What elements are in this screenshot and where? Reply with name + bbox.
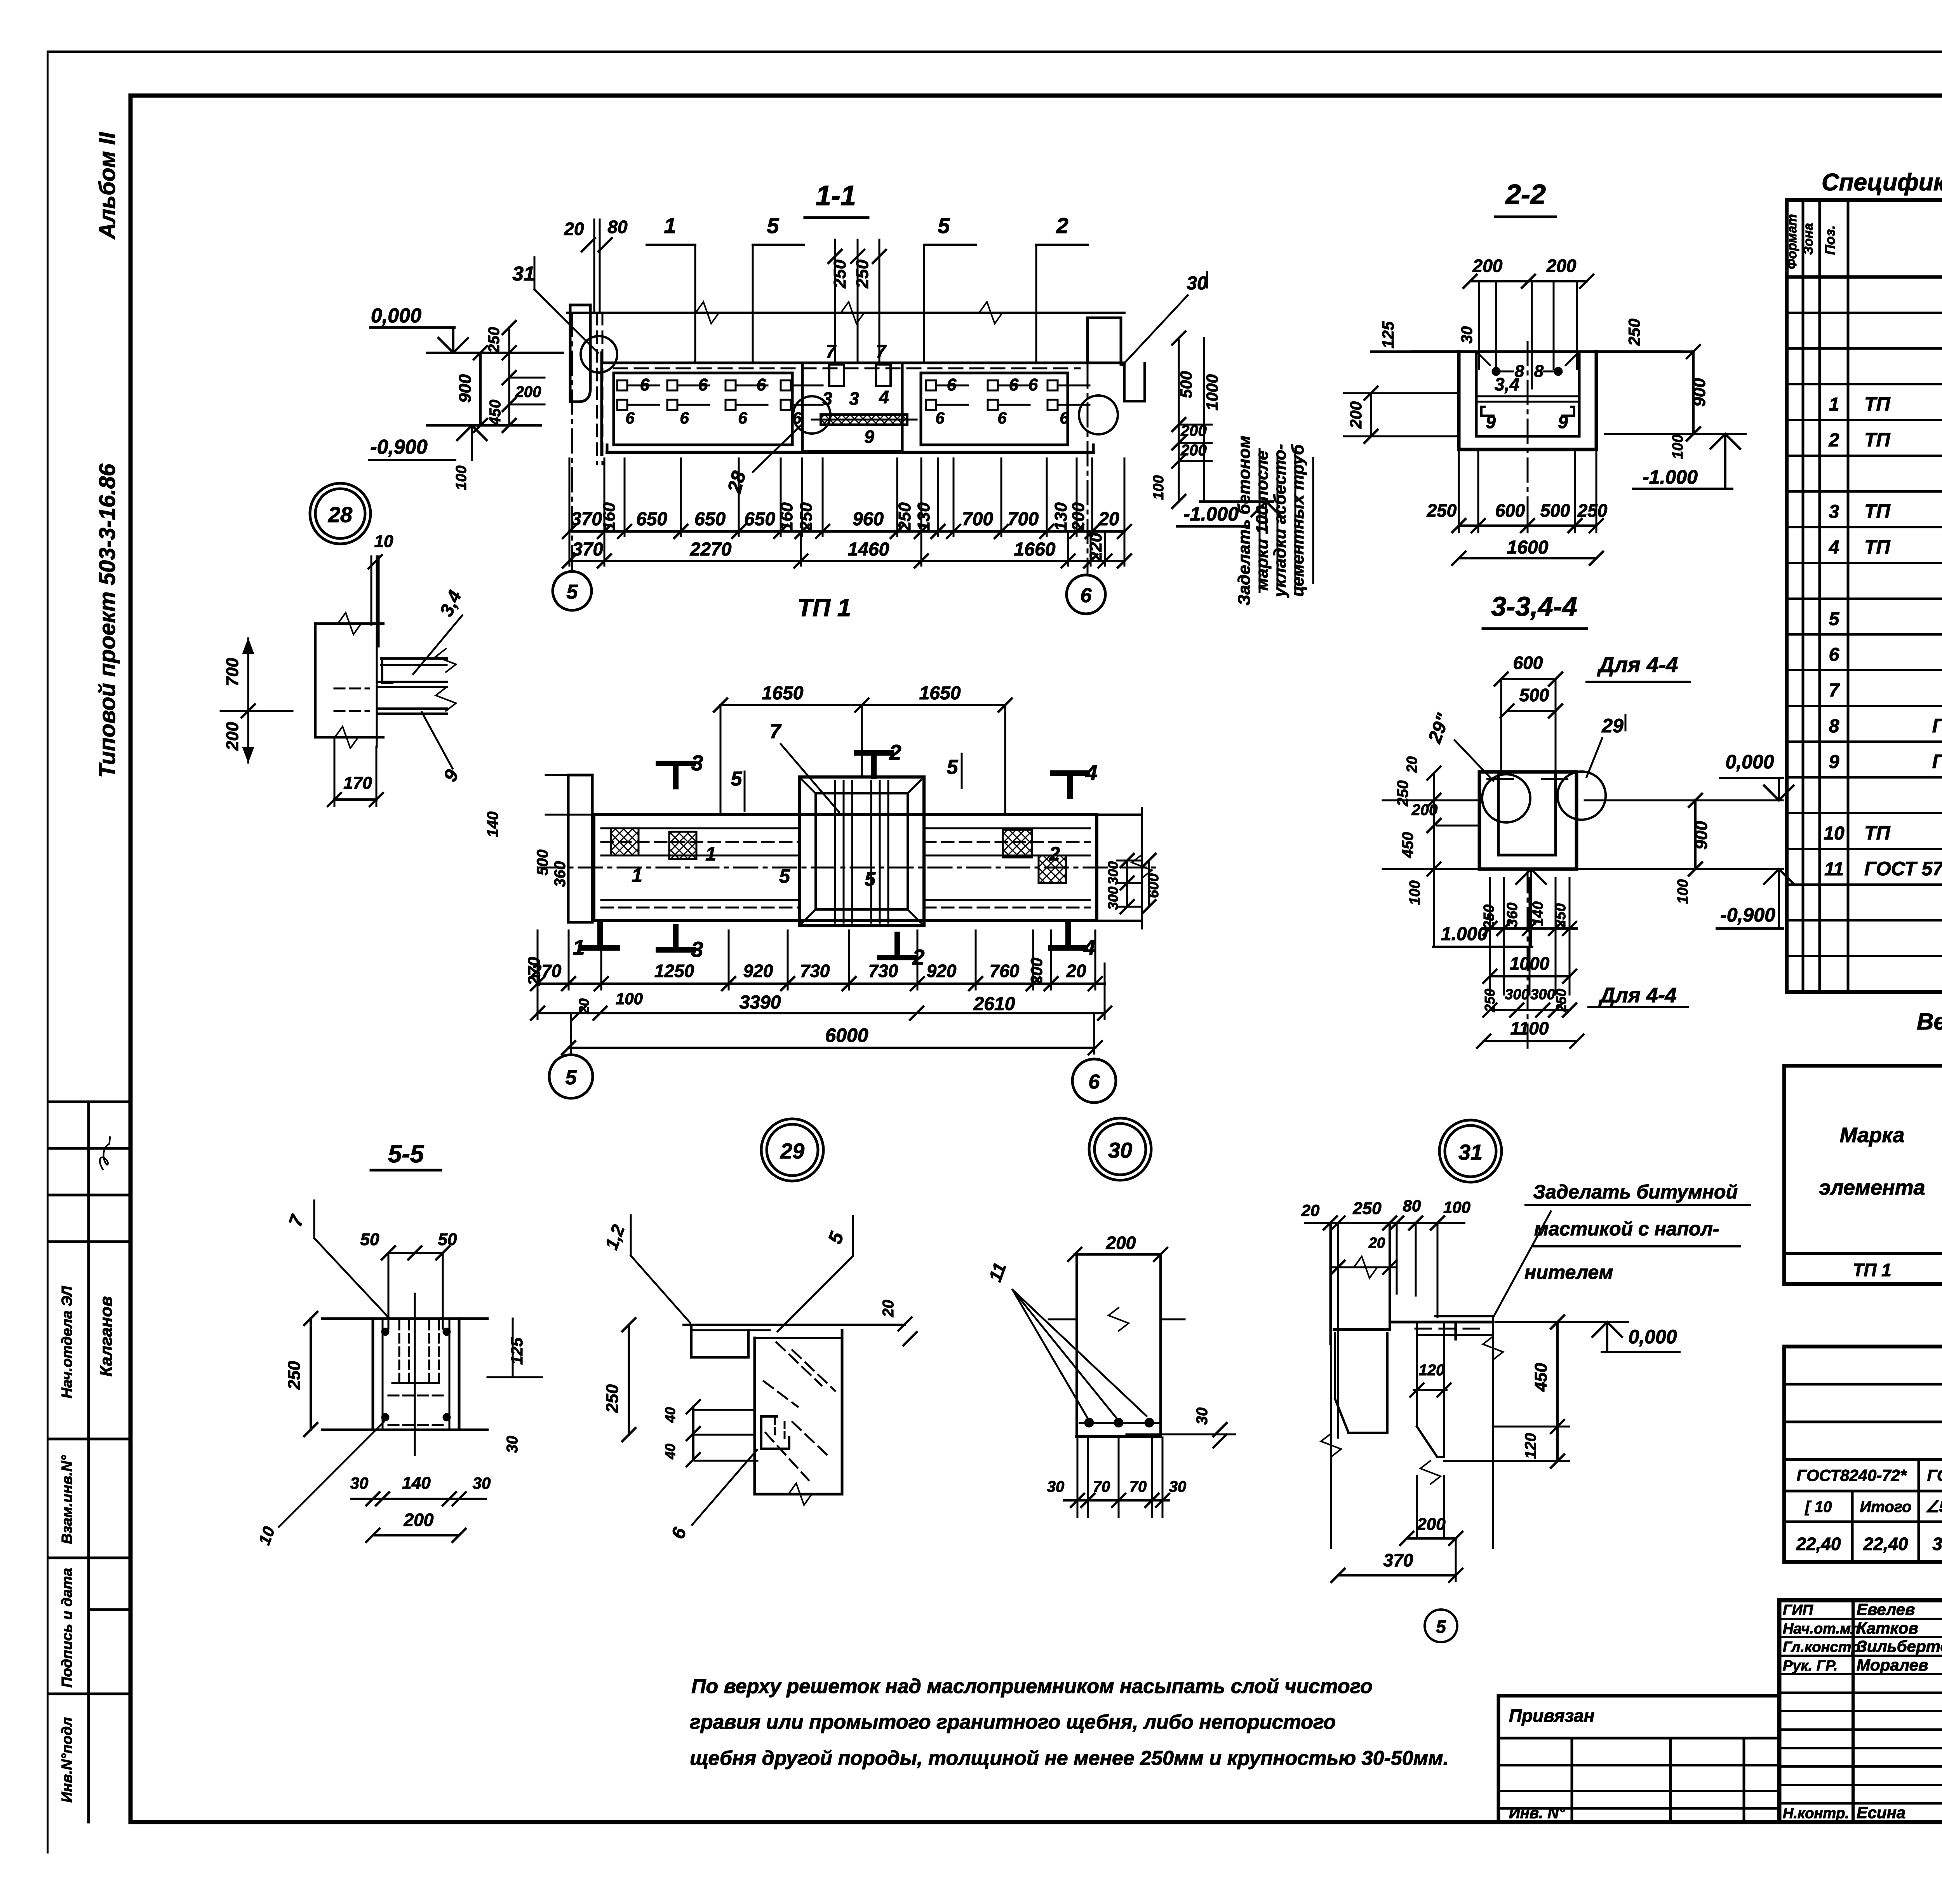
svg-text:370: 370 (572, 539, 603, 560)
svg-text:∠50×5: ∠50×5 (1925, 1498, 1942, 1516)
svg-text:200: 200 (1347, 401, 1365, 429)
svg-text:Ведомость расхода стали на эле: Ведомость расхода стали на элемент, кг (1917, 1009, 1942, 1035)
svg-text:600: 600 (1495, 500, 1525, 521)
svg-text:5: 5 (947, 756, 959, 779)
svg-text:ГОСТ 8732-78*: ГОСТ 8732-78* (1932, 715, 1942, 737)
svg-text:200: 200 (515, 383, 541, 401)
svg-text:4: 4 (1829, 537, 1839, 558)
svg-text:Инв. N°: Инв. N° (1509, 1805, 1565, 1822)
svg-text:900: 900 (1690, 378, 1709, 407)
svg-text:5: 5 (865, 868, 876, 890)
svg-text:ТП: ТП (1864, 536, 1891, 558)
svg-text:Калганов: Калганов (97, 1296, 116, 1377)
svg-text:ГИП: ГИП (1783, 1602, 1813, 1618)
svg-text:6: 6 (935, 409, 945, 427)
svg-text:нителем: нителем (1524, 1261, 1613, 1283)
svg-text:6: 6 (680, 409, 689, 427)
svg-text:140: 140 (484, 812, 501, 838)
svg-text:100: 100 (453, 465, 470, 490)
svg-text:0,000: 0,000 (371, 305, 421, 327)
svg-text:270: 270 (531, 961, 562, 981)
svg-text:40: 40 (662, 1444, 678, 1460)
svg-text:Катков: Катков (1857, 1619, 1918, 1637)
svg-text:Итого: Итого (1860, 1498, 1911, 1516)
svg-text:Зона: Зона (1801, 223, 1816, 255)
svg-text:1: 1 (632, 864, 642, 886)
svg-text:Заделать битумной: Заделать битумной (1533, 1181, 1738, 1203)
svg-text:2: 2 (889, 740, 901, 765)
svg-text:ГОСТ8509-72*: ГОСТ8509-72* (1927, 1466, 1942, 1484)
svg-text:3: 3 (849, 388, 859, 409)
svg-text:50: 50 (360, 1230, 379, 1249)
svg-text:ТП: ТП (1864, 429, 1891, 451)
svg-text:1460: 1460 (848, 539, 889, 560)
svg-text:125: 125 (508, 1337, 526, 1365)
svg-text:3: 3 (691, 751, 703, 775)
svg-text:6: 6 (1060, 409, 1069, 427)
svg-text:20: 20 (1066, 961, 1086, 981)
svg-text:1000: 1000 (1510, 953, 1550, 974)
svg-text:Взам.инв.N°: Взам.инв.N° (59, 1455, 75, 1544)
svg-text:250: 250 (853, 260, 872, 289)
svg-text:гравия или промытого гранитно: гравия или промытого гранитного щебня, л… (690, 1711, 1336, 1733)
svg-text:900: 900 (1692, 821, 1711, 850)
svg-text:Есина: Есина (1857, 1803, 1905, 1822)
svg-text:элемента: элемента (1819, 1176, 1925, 1199)
svg-text:3-3,4-4: 3-3,4-4 (1491, 591, 1577, 622)
svg-text:600: 600 (1513, 653, 1543, 673)
svg-text:250: 250 (1552, 903, 1569, 928)
svg-text:500: 500 (534, 850, 551, 876)
svg-text:3390: 3390 (740, 992, 781, 1013)
svg-text:360: 360 (552, 861, 569, 887)
svg-text:250: 250 (1625, 319, 1643, 346)
svg-text:30: 30 (350, 1474, 369, 1492)
svg-text:450: 450 (1399, 832, 1416, 859)
svg-text:300: 300 (1530, 986, 1555, 1003)
svg-text:200: 200 (1546, 256, 1577, 276)
svg-text:920: 920 (927, 961, 957, 981)
svg-text:марки 100 после: марки 100 после (1253, 451, 1272, 591)
svg-text:250: 250 (1427, 500, 1457, 521)
svg-text:10: 10 (374, 532, 393, 551)
svg-text:70: 70 (1093, 1478, 1110, 1495)
svg-text:Зильбертов: Зильбертов (1857, 1637, 1942, 1655)
svg-text:120: 120 (1522, 1433, 1539, 1459)
svg-text:50: 50 (438, 1230, 457, 1249)
svg-text:Рук. ГР.: Рук. ГР. (1783, 1658, 1838, 1674)
svg-text:Евелев: Евелев (1857, 1600, 1915, 1618)
svg-text:ГОСТ8240-72*: ГОСТ8240-72* (1797, 1466, 1907, 1484)
svg-text:200: 200 (1027, 958, 1046, 985)
svg-text:450: 450 (487, 400, 504, 426)
svg-text:22,40: 22,40 (1863, 1534, 1908, 1554)
svg-text:140: 140 (402, 1474, 431, 1493)
svg-text:11: 11 (985, 1260, 1010, 1284)
svg-text:250: 250 (1553, 989, 1569, 1012)
svg-text:250: 250 (797, 502, 816, 531)
svg-text:Нач.отдела ЭЛ: Нач.отдела ЭЛ (59, 1286, 75, 1398)
svg-text:120: 120 (1419, 1362, 1445, 1379)
svg-text:250: 250 (830, 260, 849, 289)
svg-text:-0,900: -0,900 (370, 436, 428, 458)
svg-text:6: 6 (1028, 375, 1038, 394)
svg-text:[ 10: [ 10 (1805, 1498, 1832, 1516)
svg-text:30: 30 (1108, 1138, 1132, 1162)
svg-text:22,40: 22,40 (1796, 1534, 1841, 1554)
svg-text:760: 760 (990, 961, 1020, 981)
svg-text:1250: 1250 (654, 961, 694, 981)
svg-text:7: 7 (285, 1212, 308, 1229)
svg-text:7: 7 (826, 341, 837, 361)
svg-text:5: 5 (731, 768, 743, 790)
svg-text:30: 30 (473, 1474, 491, 1492)
svg-text:20: 20 (1301, 1201, 1320, 1219)
svg-text:6: 6 (1009, 375, 1019, 394)
svg-text:Типовой проект 503-3-16.86: Типовой проект 503-3-16.86 (95, 463, 120, 778)
svg-text:600: 600 (1145, 873, 1162, 898)
svg-text:Альбом II: Альбом II (95, 132, 120, 240)
svg-text:7: 7 (770, 720, 782, 743)
svg-text:250: 250 (603, 1384, 622, 1413)
svg-text:70: 70 (1129, 1478, 1147, 1495)
svg-text:20: 20 (1098, 509, 1119, 530)
svg-text:80: 80 (1403, 1197, 1421, 1215)
svg-text:5: 5 (1829, 609, 1840, 629)
svg-text:3: 3 (691, 937, 703, 962)
svg-text:9: 9 (864, 427, 874, 447)
svg-text:Поз.: Поз. (1822, 225, 1838, 255)
svg-text:30: 30 (1458, 326, 1476, 344)
svg-text:29": 29" (1424, 711, 1454, 746)
svg-text:40: 40 (662, 1407, 678, 1423)
svg-text:5: 5 (767, 213, 779, 238)
svg-text:140: 140 (1530, 901, 1546, 926)
svg-text:1: 1 (705, 843, 716, 865)
svg-text:1660: 1660 (1014, 539, 1056, 560)
svg-text:100: 100 (616, 989, 643, 1008)
svg-text:30: 30 (504, 1436, 521, 1453)
svg-text:-1.000: -1.000 (1643, 466, 1698, 488)
svg-text:20: 20 (576, 998, 592, 1014)
svg-text:31: 31 (512, 263, 535, 285)
svg-text:370: 370 (1383, 1550, 1413, 1570)
svg-text:7: 7 (1829, 680, 1840, 701)
svg-text:По верху решеток над маслопри: По верху решеток над маслоприемником нас… (691, 1675, 1373, 1698)
svg-text:200: 200 (1180, 422, 1207, 439)
svg-text:250: 250 (1394, 780, 1411, 807)
svg-text:1,2: 1,2 (601, 1222, 629, 1252)
svg-text:200: 200 (1069, 502, 1088, 531)
svg-text:900: 900 (456, 374, 475, 403)
svg-text:4: 4 (879, 387, 889, 407)
svg-text:20: 20 (880, 1300, 897, 1318)
svg-text:650: 650 (694, 509, 726, 530)
svg-text:28: 28 (723, 469, 750, 495)
svg-text:-1.000: -1.000 (1183, 503, 1239, 525)
svg-text:Марка: Марка (1840, 1124, 1905, 1147)
svg-text:Моралев: Моралев (1857, 1656, 1928, 1674)
svg-text:9: 9 (440, 766, 463, 785)
svg-text:250: 250 (486, 327, 503, 354)
svg-text:4: 4 (1085, 760, 1097, 785)
svg-text:6: 6 (738, 409, 747, 427)
svg-text:6: 6 (1081, 584, 1092, 607)
svg-text:31: 31 (1458, 1140, 1483, 1164)
svg-text:1650: 1650 (919, 683, 961, 704)
svg-text:Гл.констр: Гл.констр (1783, 1639, 1860, 1655)
svg-text:100: 100 (1670, 434, 1686, 459)
svg-text:9: 9 (1558, 412, 1568, 432)
svg-text:500: 500 (1540, 500, 1570, 521)
svg-text:7: 7 (876, 341, 887, 361)
svg-text:730: 730 (868, 961, 898, 981)
svg-text:250: 250 (1577, 500, 1608, 521)
svg-text:5: 5 (824, 1228, 848, 1246)
svg-text:0,000: 0,000 (1725, 751, 1774, 773)
svg-text:80: 80 (607, 217, 628, 237)
svg-text:10: 10 (1824, 823, 1845, 844)
svg-text:9: 9 (1829, 752, 1839, 772)
svg-text:6: 6 (698, 375, 708, 394)
svg-text:2: 2 (1056, 213, 1068, 238)
svg-text:1650: 1650 (762, 683, 804, 704)
svg-text:250: 250 (1482, 989, 1498, 1012)
svg-text:30: 30 (1194, 1408, 1211, 1425)
svg-text:160: 160 (600, 502, 619, 531)
svg-text:3,4: 3,4 (436, 587, 466, 620)
svg-text:1000: 1000 (1203, 374, 1221, 410)
svg-text:1100: 1100 (1510, 1018, 1549, 1038)
svg-text:130: 130 (1051, 502, 1070, 531)
svg-text:Привязан: Привязан (1509, 1705, 1594, 1726)
svg-text:укладки асбесто-: укладки асбесто- (1270, 444, 1289, 598)
svg-text:ТП: ТП (1864, 822, 1891, 844)
svg-text:мастикой с напол-: мастикой с напол- (1534, 1218, 1719, 1240)
svg-text:370: 370 (571, 509, 602, 530)
svg-text:200: 200 (1180, 442, 1207, 459)
svg-text:2610: 2610 (973, 994, 1015, 1014)
svg-text:1-1: 1-1 (816, 180, 856, 211)
svg-text:100: 100 (1150, 475, 1167, 500)
svg-text:1: 1 (573, 935, 585, 960)
svg-text:650: 650 (636, 509, 667, 530)
svg-text:20: 20 (1404, 756, 1420, 773)
svg-text:6000: 6000 (825, 1024, 868, 1046)
svg-text:500: 500 (1177, 371, 1195, 398)
svg-text:6: 6 (1829, 645, 1839, 665)
svg-text:30: 30 (1169, 1478, 1187, 1495)
svg-text:20: 20 (564, 219, 584, 239)
svg-text:200: 200 (404, 1510, 434, 1530)
svg-text:Для 4-4: Для 4-4 (1597, 652, 1678, 677)
svg-text:100: 100 (1407, 880, 1423, 905)
svg-text:ТП 1: ТП 1 (797, 594, 851, 622)
svg-text:170: 170 (343, 773, 372, 793)
svg-text:960: 960 (853, 509, 884, 530)
svg-text:цементных труб: цементных труб (1288, 444, 1307, 597)
svg-text:5-5: 5-5 (388, 1140, 425, 1168)
svg-text:30: 30 (1047, 1478, 1065, 1495)
svg-text:6: 6 (625, 409, 635, 427)
svg-text:20: 20 (1368, 1235, 1385, 1251)
svg-text:1: 1 (664, 213, 676, 238)
svg-text:2270: 2270 (690, 539, 732, 560)
svg-text:100: 100 (1443, 1198, 1470, 1216)
svg-text:30: 30 (1187, 273, 1208, 294)
svg-text:6: 6 (640, 375, 650, 394)
svg-text:3: 3 (1829, 502, 1839, 522)
svg-text:28: 28 (328, 502, 353, 527)
svg-text:500: 500 (1519, 685, 1549, 705)
svg-text:6: 6 (668, 1525, 691, 1542)
svg-text:700: 700 (962, 509, 993, 530)
svg-text:250: 250 (1481, 904, 1497, 929)
svg-text:6: 6 (1089, 1071, 1100, 1093)
svg-text:9: 9 (1486, 412, 1496, 432)
svg-text:700: 700 (223, 658, 242, 686)
svg-text:1600: 1600 (1507, 537, 1549, 558)
svg-text:29: 29 (780, 1139, 804, 1163)
svg-text:6: 6 (947, 375, 957, 394)
svg-text:125: 125 (1379, 321, 1397, 348)
svg-text:Нач.от.мл: Нач.от.мл (1783, 1621, 1860, 1637)
svg-text:6: 6 (757, 375, 766, 394)
svg-text:250: 250 (285, 1361, 304, 1390)
svg-text:700: 700 (1008, 509, 1039, 530)
svg-text:Для 4-4: Для 4-4 (1598, 984, 1676, 1007)
svg-text:30,0: 30,0 (1932, 1534, 1942, 1554)
svg-text:200: 200 (223, 722, 242, 751)
svg-text:11: 11 (1824, 859, 1844, 880)
svg-text:1: 1 (1829, 394, 1839, 415)
svg-text:360: 360 (1504, 902, 1521, 927)
svg-text:5: 5 (1436, 1617, 1446, 1637)
svg-text:ТП 1: ТП 1 (1853, 1260, 1892, 1280)
svg-text:ТП: ТП (1864, 500, 1891, 522)
svg-text:130: 130 (914, 502, 933, 531)
svg-text:2: 2 (1829, 430, 1839, 451)
svg-text:8: 8 (1829, 716, 1839, 737)
svg-text:8: 8 (1534, 362, 1544, 381)
svg-text:4: 4 (1083, 935, 1095, 960)
svg-text:100: 100 (1675, 879, 1691, 904)
svg-text:5: 5 (779, 865, 790, 887)
svg-text:ГОСТ 8240-72*: ГОСТ 8240-72* (1932, 751, 1942, 772)
svg-text:Спецификация элементов на прия: Спецификация элементов на приямок ТП1 (1822, 169, 1942, 196)
svg-text:Формат: Формат (1785, 214, 1799, 269)
svg-text:2: 2 (1049, 843, 1060, 865)
svg-text:5: 5 (938, 213, 950, 238)
svg-text:3,4: 3,4 (1495, 374, 1519, 394)
svg-text:6: 6 (997, 409, 1007, 427)
svg-text:300: 300 (1105, 887, 1121, 910)
svg-text:730: 730 (800, 961, 830, 981)
svg-text:220: 220 (1086, 533, 1105, 562)
svg-text:Н.контр.: Н.контр. (1783, 1805, 1849, 1822)
svg-text:250: 250 (1352, 1199, 1382, 1218)
svg-text:300: 300 (1505, 986, 1529, 1003)
svg-text:Подпись и дата: Подпись и дата (59, 1568, 75, 1688)
svg-text:5: 5 (566, 1066, 577, 1089)
svg-text:920: 920 (743, 961, 773, 981)
svg-text:10: 10 (255, 1524, 278, 1547)
svg-text:650: 650 (744, 509, 775, 530)
svg-text:-0,900: -0,900 (1720, 904, 1775, 926)
svg-text:0,000: 0,000 (1628, 1326, 1677, 1348)
svg-text:Инв.N°подл: Инв.N°подл (59, 1717, 75, 1803)
svg-text:200: 200 (1472, 256, 1503, 276)
svg-text:ТП: ТП (1864, 393, 1891, 415)
svg-text:29: 29 (1601, 715, 1624, 737)
svg-text:2-2: 2-2 (1505, 179, 1546, 210)
svg-text:450: 450 (1531, 1363, 1550, 1392)
svg-text:200: 200 (1106, 1233, 1136, 1253)
svg-text:300: 300 (1105, 861, 1121, 885)
svg-text:щебня другой породы, толщиной: щебня другой породы, толщиной не менее 2… (690, 1747, 1449, 1770)
svg-text:200: 200 (1416, 1515, 1446, 1534)
svg-text:5: 5 (567, 581, 578, 603)
svg-text:ГОСТ 5781- 82*: ГОСТ 5781- 82* (1864, 858, 1942, 880)
